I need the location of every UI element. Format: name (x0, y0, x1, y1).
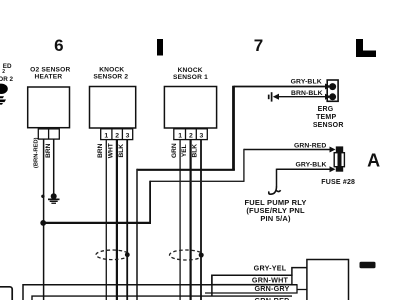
fold mark I (157, 39, 163, 56)
knock sensor 2 pin row 1 2 3 (101, 129, 133, 140)
arrowhead GRN-RED (330, 147, 336, 153)
svg-text:HEATER: HEATER (34, 73, 62, 80)
wire BRN from O2 pin 2 (53, 139, 55, 193)
wire GRN-WHT long (23, 285, 297, 300)
shield ellipse KS2 (96, 250, 129, 260)
label KNOCK SENSOR 2 (93, 66, 128, 80)
wire GRN-RED horizontal to O2 splice (43, 222, 151, 224)
knock sensor 2 box (90, 87, 136, 129)
label box GRN-WHT (212, 275, 292, 284)
svg-text:GRY-BLK: GRY-BLK (295, 162, 326, 169)
svg-text:KNOCK: KNOCK (99, 66, 124, 73)
wire GRN-RED to fuse (244, 149, 330, 151)
svg-text:3: 3 (200, 133, 204, 140)
svg-text:BRN: BRN (45, 143, 52, 158)
wire GRN-RED corner down (243, 149, 245, 182)
arrowhead GRY-BLK fuse (330, 166, 336, 172)
knock sensor 1 box (164, 87, 216, 129)
svg-text:2: 2 (2, 69, 5, 75)
svg-text:OR 2: OR 2 (0, 76, 13, 83)
svg-text:WHT: WHT (108, 143, 115, 158)
svg-text:SENSOR 2: SENSOR 2 (93, 73, 128, 80)
svg-text:O2 SENSOR: O2 SENSOR (30, 66, 70, 73)
svg-text:BRN-BLK: BRN-BLK (291, 90, 323, 97)
cut-off connector blob (0, 84, 8, 94)
svg-text:A: A (367, 151, 380, 171)
wire GRY-BLK vertical thick (232, 86, 235, 170)
ecu box bottom left (0, 287, 12, 300)
svg-text:KNOCK: KNOCK (178, 67, 203, 74)
wire WHT from KS2 pin2 (116, 140, 118, 300)
wire YEL from KS1 pin2 (190, 140, 192, 300)
svg-text:BRN: BRN (97, 143, 104, 158)
label KNOCK SENSOR 1 (173, 67, 208, 81)
fuse #28 symbol (334, 146, 344, 171)
svg-text:ERG: ERG (318, 106, 334, 113)
label O2 SENSOR HEATER (30, 66, 70, 80)
svg-text:SENSOR: SENSOR (313, 122, 344, 129)
fold mark L (356, 39, 376, 57)
svg-text:SENSOR 1: SENSOR 1 (173, 74, 208, 81)
svg-text:2: 2 (189, 133, 193, 140)
small junction dot on BRN-RED wire (41, 195, 44, 198)
stub GRN-GRY to connector (297, 289, 307, 291)
svg-text:GRY-YEL: GRY-YEL (254, 264, 287, 273)
O2 sensor heater box (28, 87, 70, 128)
O2 pin row (38, 129, 59, 139)
cut-off connector hatch (0, 96, 4, 98)
cut-off label HEATED O2 SENSOR 2 (0, 63, 13, 83)
svg-text:TEMP: TEMP (316, 114, 336, 121)
wire stub down to fuel pump rly (276, 169, 278, 186)
svg-text:BLK: BLK (192, 144, 199, 158)
EGR temp sensor connector (327, 80, 338, 101)
svg-text:(BRN-RED): (BRN-RED) (34, 137, 40, 168)
svg-text:7: 7 (254, 36, 263, 55)
svg-text:GRN: GRN (171, 143, 178, 158)
wire GRN-GRY long (32, 296, 292, 300)
shield junction dot KS2 (125, 252, 130, 257)
ecu connector box bottom right (307, 260, 349, 300)
noise suppressor symbol (269, 92, 272, 101)
wire GRN-RED horizontal left (150, 180, 244, 182)
svg-text:1: 1 (104, 133, 108, 140)
svg-text:FUSE #28: FUSE #28 (321, 179, 355, 186)
svg-text:YEL: YEL (181, 144, 188, 157)
svg-text:GRN-RED: GRN-RED (255, 296, 290, 300)
label box GRN-GRY (205, 285, 297, 293)
splice junction dot (40, 220, 46, 226)
hook pointer to fuel pump rly (269, 186, 281, 194)
label ERG TEMP SENSOR (313, 106, 344, 129)
wire GRY-YEL (212, 268, 307, 296)
svg-text:BLK: BLK (118, 144, 125, 158)
arrowhead BRN-BLK right (325, 94, 331, 100)
svg-text:GRN-GRY: GRN-GRY (254, 284, 289, 293)
wire GRN from KS1 pin1 (179, 140, 181, 300)
wire BLK from KS1 pin3 (200, 140, 202, 300)
wire BRN-BLK (279, 96, 327, 98)
svg-text:GRN-RED: GRN-RED (294, 143, 326, 150)
wire GRY-BLK to fuse (277, 168, 331, 170)
svg-text:GRY-BLK: GRY-BLK (291, 78, 322, 85)
svg-text:3: 3 (126, 133, 130, 140)
label FUEL PUMP RLY (244, 198, 306, 223)
ground G101 (48, 193, 60, 204)
svg-text:6: 6 (54, 36, 63, 55)
black tab marker (360, 262, 376, 269)
svg-text:GRN-WHT: GRN-WHT (252, 275, 289, 284)
arrowhead GRY-BLK (325, 84, 331, 90)
knock sensor 1 pin row 1 2 3 (174, 129, 208, 140)
wire BRN-RED from O2 pin 1 (43, 139, 45, 300)
svg-text:1: 1 (178, 133, 182, 140)
svg-text:2: 2 (115, 133, 119, 140)
arrowhead BRN-BLK left (273, 94, 279, 100)
shield ellipse KS1 (170, 250, 204, 260)
wire BLK from KS2 pin3 (126, 140, 128, 300)
wire GRN-RED vertical x150 (149, 181, 151, 223)
svg-text:PIN 5/A): PIN 5/A) (260, 214, 291, 223)
wire BRN from KS2 pin1 (105, 140, 107, 300)
shield junction dot KS1 (199, 253, 204, 258)
wire GRY-BLK to EGR temp sensor (234, 86, 328, 88)
wire vertical x137 down (136, 169, 138, 300)
wire horizontal to x137 (137, 169, 235, 171)
